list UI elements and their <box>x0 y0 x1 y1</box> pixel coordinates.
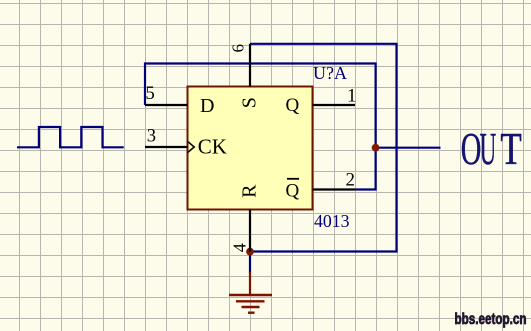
svg-text:D: D <box>200 95 214 117</box>
Qbar overline <box>287 178 299 180</box>
wire: OUT branch <box>376 147 441 149</box>
svg-text:1: 1 <box>347 86 357 107</box>
svg-text:5: 5 <box>146 84 155 104</box>
pin 4 (R reset input) <box>249 210 251 252</box>
wire: net S-to-R loop (pin6 around right to pin4) <box>250 44 397 252</box>
pin 5 (D input) <box>145 104 188 106</box>
junction: OUT node <box>372 144 380 152</box>
svg-text:6: 6 <box>229 44 248 53</box>
pin 6 (S set input) <box>249 44 251 87</box>
net label OUT <box>461 124 522 175</box>
svg-text:O: O <box>461 125 482 175</box>
svg-text:bbs.eetop.cn: bbs.eetop.cn <box>455 311 527 328</box>
ground <box>229 272 272 313</box>
svg-text:Q: Q <box>285 95 299 116</box>
svg-text:CK: CK <box>198 134 227 158</box>
wire: ground stem <box>249 252 251 274</box>
svg-text:2: 2 <box>346 170 356 191</box>
svg-text:S: S <box>239 97 261 108</box>
input square wave <box>17 127 124 147</box>
flip-flop U?A body (4013) <box>188 87 313 210</box>
junction: R/S ground node <box>246 248 254 256</box>
pin 1 (Q output) <box>313 104 356 106</box>
svg-text:Q: Q <box>285 180 299 201</box>
svg-text:4013: 4013 <box>314 211 350 231</box>
clock wedge <box>188 141 195 152</box>
svg-text:T: T <box>500 124 521 175</box>
svg-text:U?A: U?A <box>313 63 347 83</box>
pin 2 (Qbar output) <box>313 188 356 190</box>
wire: net D-to-Qbar feedback (pin5 top loop) <box>145 64 376 190</box>
svg-text:4: 4 <box>230 243 250 252</box>
svg-text:U: U <box>480 124 497 175</box>
svg-text:R: R <box>239 184 261 198</box>
svg-text:3: 3 <box>147 127 156 147</box>
pin 3 (CK clock input) <box>145 146 188 148</box>
